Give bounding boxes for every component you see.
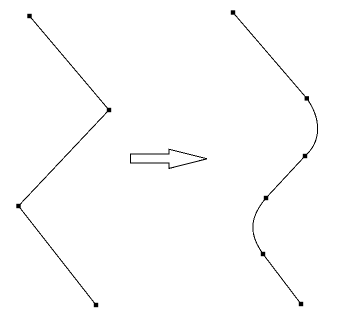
fit point marker R6 <box>299 302 303 306</box>
arrow (outlined, pointing right) <box>131 149 208 168</box>
fit point marker R5 <box>261 252 265 256</box>
fit point marker R1 <box>231 10 235 14</box>
vertex marker P3 <box>16 204 20 208</box>
left polyline (original polyline with straight segments) <box>19 16 110 305</box>
vertex marker P1 <box>27 14 31 18</box>
right spline curve (fit curve through points) <box>233 13 318 305</box>
fit point marker R4 <box>264 196 268 200</box>
fit point marker R2 <box>305 96 309 100</box>
fit point marker R3 <box>303 154 307 158</box>
vertex marker P2 <box>107 108 111 112</box>
vertex marker P4 <box>94 303 98 307</box>
